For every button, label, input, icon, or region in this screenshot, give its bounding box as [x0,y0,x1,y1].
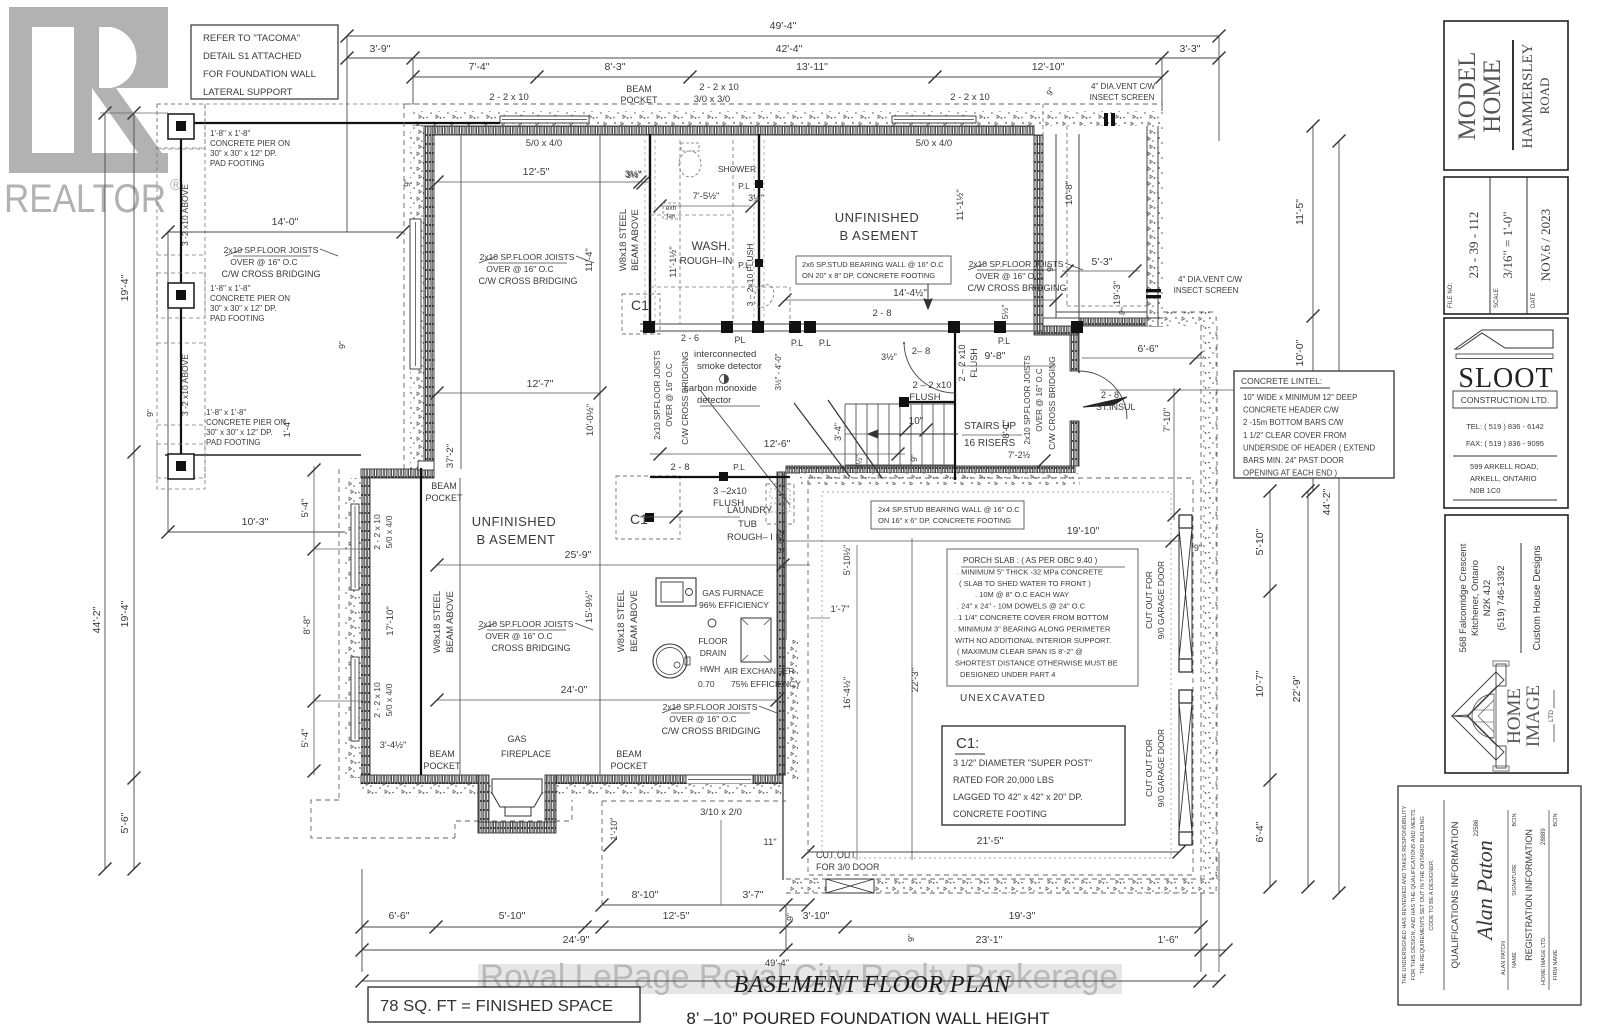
svg-text:DATE: DATE [1531,292,1537,308]
concrete pier P1 [168,114,194,139]
svg-text:BEAM: BEAM [431,481,457,491]
svg-text:HAMMERSLEY: HAMMERSLEY [1520,43,1536,148]
svg-text:PAD FOOTING: PAD FOOTING [210,314,265,323]
left wall window/vent upper [410,219,421,369]
garage inner dotted rect 2 [822,492,1171,858]
HWH tank circle [653,644,687,678]
svg-text:2x4 SP.STUD BEARING WALL @ 16": 2x4 SP.STUD BEARING WALL @ 16" O.C [878,505,1020,514]
dim chain 24'-9 / 23'-1 / 1'-6 bottom [362,949,1226,951]
svg-text:CONCRETE PIER ON: CONCRETE PIER ON [210,139,290,148]
laundry flush beam line [650,476,790,478]
left wing wall hatched [361,478,370,778]
svg-text:BEAM: BEAM [429,749,455,759]
bottom wall dashed footing steps [311,800,572,838]
section cut diagonals [700,390,790,505]
svg-text:78 SQ. FT = FINISHED SPACE: 78 SQ. FT = FINISHED SPACE [380,998,613,1015]
svg-text:. MINIMUM 3" BEARING ALONG PER: . MINIMUM 3" BEARING ALONG PERIMETER [954,624,1111,633]
left wing window lower 5/0x4/0 [351,657,359,741]
svg-text:2 – 2 x10: 2 – 2 x10 [957,344,967,381]
svg-text:BEAM: BEAM [626,84,652,94]
svg-text:12'-5": 12'-5" [663,910,690,922]
svg-text:P.L: P.L [733,462,745,472]
svg-text:5/0 x 4/0: 5/0 x 4/0 [384,515,394,548]
svg-text:SIGNATURE: SIGNATURE [1512,864,1518,896]
east step wall horizontal [1079,318,1163,326]
title block HOME IMAGE [1445,515,1568,773]
svg-text:9": 9" [145,409,155,417]
svg-text:QUALIFICATIONS INFORMATION: QUALIFICATIONS INFORMATION [1450,821,1461,968]
right wing east wall stipple [786,640,798,780]
svg-text:3'-4½": 3'-4½" [380,740,407,751]
svg-text:3/0 x 3/0: 3/0 x 3/0 [694,94,730,105]
svg-text:DESIGNED UNDER PART 4: DESIGNED UNDER PART 4 [960,670,1055,679]
svg-text:19'-4": 19'-4" [119,600,131,627]
svg-text:3 -2 x10 ABOVE: 3 -2 x10 ABOVE [180,354,190,416]
svg-text:9": 9" [906,934,916,942]
title box 78 SQ FT [368,987,640,1022]
svg-text:MODEL: MODEL [1454,52,1481,141]
svg-text:5'-6": 5'-6" [119,812,131,833]
svg-text:3 – 2x10 FLUSH: 3 – 2x10 FLUSH [745,244,755,307]
svg-text:NAME: NAME [1512,952,1518,968]
dim chain 22'-9 right [1307,491,1309,887]
svg-text:GAS: GAS [507,734,526,744]
svg-text:CONCRETE PIER ON: CONCRETE PIER ON [210,294,290,303]
svg-text:44'-2": 44'-2" [91,606,103,633]
svg-text:C1:: C1: [956,735,979,752]
svg-text:37'-2": 37'-2" [445,444,456,468]
bottom guide verticals [361,869,363,972]
stair center thick wall [954,330,956,480]
left wing dashed footing [338,469,340,800]
air exchanger box [741,618,771,662]
svg-text:7'-5½": 7'-5½" [693,191,720,202]
svg-text:PORCH SLAB : ( AS PER OBC 9.4: PORCH SLAB : ( AS PER OBC 9.40 ) [963,556,1098,565]
step wall at carport junction [361,469,434,478]
carport beam line horizontal 3-2x10 [181,122,500,124]
svg-text:2x10 SP.FLOOR JOISTS: 2x10 SP.FLOOR JOISTS [224,245,319,255]
svg-text:fan: fan [666,213,675,220]
svg-text:3/16" = 1'-0": 3/16" = 1'-0" [1500,211,1515,278]
dim chain 11'-5 / 10'-0 top right [1312,126,1314,491]
svg-text:19'-3": 19'-3" [1112,281,1123,305]
svg-text:C/W CROSS BRIDGING: C/W CROSS BRIDGING [221,269,320,279]
svg-text:568 Falconridge Crescent: 568 Falconridge Crescent [1458,543,1469,652]
svg-text:OVER @ 16" O.C: OVER @ 16" O.C [665,363,674,427]
svg-text:POCKET: POCKET [620,95,658,105]
svg-text:16 RISERS: 16 RISERS [964,438,1015,449]
svg-text:CUT OUT: CUT OUT [816,850,856,860]
bottom wing wall hatched right part [556,775,783,784]
svg-text:4" DIA.VENT C/W: 4" DIA.VENT C/W [1091,82,1155,91]
svg-text:2 - 6: 2 - 6 [681,333,699,343]
fireplace firebox shape [492,779,542,807]
svg-text:DRAIN: DRAIN [700,648,726,658]
svg-text:PAD FOOTING: PAD FOOTING [210,159,265,168]
svg-text:BCIN: BCIN [1553,813,1559,826]
porch interior wall lines [1055,134,1057,318]
svg-text:ON 20" x 8" DP. CONCRETE FOOT: ON 20" x 8" DP. CONCRETE FOOTING [802,271,935,280]
stair direction arrow [868,430,958,438]
dim chain 21'-5 bottom garage [808,851,1179,853]
svg-text:BEAM: BEAM [616,749,642,759]
east footing dashed lines [1200,326,1202,880]
svg-text:14'-4½": 14'-4½" [893,288,927,299]
dim chain 5'-10 / 10'-7 / 6'-4 right [1269,491,1271,887]
svg-text:CONCRETE HEADER C/W: CONCRETE HEADER C/W [1243,406,1339,415]
east footing step horizontal band [1163,312,1217,326]
svg-text:WASH.: WASH. [692,239,731,253]
svg-text:9/0 GARAGE DOOR: 9/0 GARAGE DOOR [1156,729,1166,807]
vertical guide from 49'-4 chain [346,36,348,232]
svg-text:(519) 746-1392: (519) 746-1392 [1496,566,1507,631]
dim line 14'-0 carport [168,231,403,233]
svg-text:CONCRETE LINTEL:: CONCRETE LINTEL: [1241,376,1322,386]
svg-text:BCIN: BCIN [1512,813,1518,826]
svg-text:OVER @ 16" O.C: OVER @ 16" O.C [669,714,736,724]
exh fan box [663,203,680,219]
dim chain 49'-4 bottom [362,980,1219,982]
svg-text:22'-9": 22'-9" [1291,675,1303,702]
title block QUALIFICATIONS [1398,786,1581,1005]
top wall stipple band [413,111,1163,126]
C1 post mark [645,513,654,522]
svg-text:smoke detector: smoke detector [697,361,762,372]
dim chain 19'-4 / 19'-4 / 5'-6 left [133,113,135,869]
svg-text:SHOWER: SHOWER [718,164,756,174]
svg-text:BASEMENT FLOOR PLAN: BASEMENT FLOOR PLAN [733,972,1012,998]
svg-text:10'-3": 10'-3" [242,516,269,528]
svg-text:PL: PL [734,335,745,345]
svg-text:19'-10": 19'-10" [1067,525,1100,537]
svg-text:2 - 2 x 10: 2 - 2 x 10 [950,92,990,103]
svg-text:IMAGE: IMAGE [1523,685,1544,747]
svg-text:44'-2": 44'-2" [1321,488,1333,515]
watermark Royal LePage band [478,964,1122,994]
svg-text:24'-9": 24'-9" [563,934,590,946]
svg-text:OVER @ 16" O.C: OVER @ 16" O.C [486,264,553,274]
svg-text:POCKET: POCKET [423,761,461,771]
garage inner dashed rect [808,478,1193,875]
svg-text:5'-10": 5'-10" [499,910,526,922]
svg-text:TEL: ( 519 ) 836 - 6142: TEL: ( 519 ) 836 - 6142 [1466,422,1544,431]
svg-text:2 - 8: 2 - 8 [670,462,689,473]
svg-text:FOR 3/0 DOOR: FOR 3/0 DOOR [816,862,880,872]
svg-text:21'-5": 21'-5" [977,835,1004,847]
svg-text:10'-0": 10'-0" [1294,339,1306,366]
svg-text:23'-1": 23'-1" [976,934,1003,946]
svg-text:3'-4": 3'-4" [833,423,843,441]
east footing band vertical [1203,326,1217,880]
svg-text:19'-3": 19'-3" [1009,910,1036,922]
svg-text:3'-10": 3'-10" [803,910,830,922]
right guide line from 49'-4 [1218,36,1220,141]
svg-text:LAUNDRY: LAUNDRY [727,505,773,516]
left wall stipple [410,126,424,474]
toilet dashed circle [679,151,701,177]
svg-text:UNDERSIDE OF HEADER ( EXTEND: UNDERSIDE OF HEADER ( EXTEND [1243,443,1375,452]
svg-text:16'-4½": 16'-4½" [842,677,853,709]
svg-text:9": 9" [785,913,795,921]
svg-text:599 ARKELL ROAD,: 599 ARKELL ROAD, [1470,462,1539,471]
watermark REALTOR R logo [9,7,168,173]
svg-text:OVER @ 16" O.C: OVER @ 16" O.C [485,631,552,641]
svg-text:ARKELL, ONTARIO: ARKELL, ONTARIO [1470,474,1537,483]
svg-text:9'-8": 9'-8" [985,350,1006,362]
svg-text:HWH: HWH [700,664,720,674]
svg-text:C/W CROSS BRIDGING: C/W CROSS BRIDGING [967,283,1066,293]
svg-text:RATED FOR 20,000 LBS: RATED FOR 20,000 LBS [953,775,1054,785]
svg-text:7'-10": 7'-10" [1162,408,1173,432]
svg-text:ON 16" x 6" DP. CONCRETE FOOTI: ON 16" x 6" DP. CONCRETE FOOTING [878,516,1011,525]
svg-text:Kitchener, Ontario: Kitchener, Ontario [1470,560,1481,636]
svg-text:49'-4": 49'-4" [770,20,797,32]
svg-text:1'-8" x 1'-8": 1'-8" x 1'-8" [206,408,246,417]
garage bottom dashed lines [786,878,1217,880]
svg-text:5½": 5½" [1000,305,1010,320]
svg-text:OVER @ 16" O.C: OVER @ 16" O.C [975,271,1042,281]
steel beam thick line left wing W8x18 [420,468,422,775]
svg-text:11": 11" [763,837,776,848]
note box 2x6 bearing wall [796,256,951,284]
svg-text:FIREPLACE: FIREPLACE [501,749,551,759]
svg-text:LTD: LTD [1548,710,1555,722]
svg-text:2 - 2 x 10: 2 - 2 x 10 [372,514,382,550]
svg-text:7'-2½: 7'-2½ [1008,450,1031,460]
svg-text:( SLAB TO SHED WATER TO FRONT: ( SLAB TO SHED WATER TO FRONT ) [959,579,1091,588]
svg-text:5'-3": 5'-3" [1092,256,1113,268]
svg-text:BARS MIN. 24" PAST DOOR: BARS MIN. 24" PAST DOOR [1243,456,1344,465]
svg-text:8'-3": 8'-3" [605,61,626,73]
svg-text:OVER @ 16" O.C: OVER @ 16" O.C [230,257,297,267]
laundry tub dashed [766,484,794,524]
svg-text:23 - 39 - 112: 23 - 39 - 112 [1466,212,1481,279]
lintel leader line [1100,389,1234,391]
svg-text:C1: C1 [631,297,649,313]
svg-text:ROAD: ROAD [1537,78,1552,115]
svg-text:11'-1½": 11'-1½" [668,246,679,277]
svg-text:1 1/2" CLEAR COVER FROM: 1 1/2" CLEAR COVER FROM [1243,431,1346,440]
svg-text:10" WIDE x MINIMUM 12" DEEP: 10" WIDE x MINIMUM 12" DEEP [1243,393,1357,402]
porch left wall hatched [1034,135,1043,335]
svg-text:5'-6½": 5'-6½" [776,528,786,553]
svg-text:13'-11": 13'-11" [796,61,828,73]
svg-text:3 1/2" DIAMETER "SUPER POST": 3 1/2" DIAMETER "SUPER POST" [953,758,1092,768]
svg-text:1'-10": 1'-10" [609,818,619,841]
svg-text:FOR FOUNDATION WALL: FOR FOUNDATION WALL [203,69,316,80]
stair door arc [904,342,955,393]
svg-text:POCKET: POCKET [610,761,648,771]
svg-text:AIR EXCHANGER: AIR EXCHANGER [724,666,794,676]
svg-text:CONCRETE PIER ON: CONCRETE PIER ON [206,418,286,427]
svg-text:5'-4": 5'-4" [300,499,311,518]
svg-text:HOME IMAGE LTD.: HOME IMAGE LTD. [1541,936,1547,985]
svg-text:9": 9" [402,179,412,187]
dim chain 6'-6 / 5'-10 / 12'-5 / 3'-10 / 19'-3 bottom [362,926,1201,928]
svg-text:PAD FOOTING: PAD FOOTING [206,438,261,447]
carport dashed footing outline [157,104,430,478]
svg-text:3½": 3½" [881,352,897,362]
svg-text:C/W CROSS BRIDGING: C/W CROSS BRIDGING [478,276,577,286]
garage interior vertical guide [856,545,858,860]
svg-text:CROSS BRIDGING: CROSS BRIDGING [491,643,570,653]
svg-text:75% EFFICIENCY: 75% EFFICIENCY [731,679,801,689]
svg-text:BEAM ABOVE: BEAM ABOVE [445,591,456,653]
svg-text:2x6 SP.STUD BEARING WALL @ 16": 2x6 SP.STUD BEARING WALL @ 16" O.C [802,260,944,269]
porch side vent bars [1146,289,1161,292]
svg-text:FLOOR: FLOOR [698,636,727,646]
carport bottom edge line [165,454,361,456]
svg-text:CODE TO BE A DESIGNER.: CODE TO BE A DESIGNER. [1429,859,1435,931]
svg-text:8'-1": 8'-1" [1001,420,1012,439]
dim 12'-7 interior [437,392,600,394]
svg-text:25'-9": 25'-9" [565,549,592,561]
svg-text:12'-5": 12'-5" [523,166,550,178]
svg-text:30" x 30" x 12" DP.: 30" x 30" x 12" DP. [206,428,273,437]
svg-text:REALTOR: REALTOR [4,177,166,221]
svg-text:NOV.6 / 2023: NOV.6 / 2023 [1538,209,1553,281]
top wall hatched band main [413,126,1034,135]
bottom wall window 3/10 [686,775,753,784]
svg-text:8'-8": 8'-8" [302,616,313,635]
title block FILE SCALE DATE [1444,177,1568,314]
svg-text:96% EFFICIENCY: 96% EFFICIENCY [699,600,769,610]
bearing wall horizontal line y327 [640,323,1043,325]
svg-text:FOR THIS DESIGN, AND HAS THE: FOR THIS DESIGN, AND HAS THE QUALIFICATI… [1411,809,1417,980]
svg-text:W8x18 STEEL: W8x18 STEEL [616,590,627,652]
svg-text:UNFINISHED: UNFINISHED [472,514,556,529]
svg-text:B ASEMENT: B ASEMENT [840,228,919,243]
note box 2x4 bearing wall [871,501,1024,529]
svg-text:30" x 30" x 12" DP.: 30" x 30" x 12" DP. [210,149,277,158]
svg-text:THE UNDERSIGNED HAS REVIEWED A: THE UNDERSIGNED HAS REVIEWED AND TAKES R… [1402,805,1408,984]
svg-text:3'-3": 3'-3" [1180,43,1201,55]
dim chain 8'-10 / 3'-7 bottom [602,904,808,906]
svg-text:7'-4": 7'-4" [469,61,490,73]
svg-text:carbon monoxide: carbon monoxide [684,383,757,394]
porch right wall stipple [1146,126,1163,326]
steel beam line left wing [459,478,461,775]
svg-text:CUT OUT FOR: CUT OUT FOR [1144,739,1154,797]
svg-text:9": 9" [909,454,919,462]
svg-text:CONSTRUCTION LTD.: CONSTRUCTION LTD. [1461,395,1550,405]
svg-text:19'-4": 19'-4" [119,274,131,301]
svg-text:P.L: P.L [791,338,803,348]
svg-text:OPENING AT EACH END ): OPENING AT EACH END ) [1243,469,1338,478]
svg-text:30" x 30" x 12" DP.: 30" x 30" x 12" DP. [210,304,277,313]
svg-text:15'-9½": 15'-9½" [584,591,595,623]
svg-text:9": 9" [1045,264,1055,272]
svg-text:N2K 4J2: N2K 4J2 [1482,580,1493,616]
svg-text:P.L: P.L [998,336,1010,346]
svg-text:FLUSH: FLUSH [909,392,940,403]
stair landing lines [845,433,955,435]
bearing wall thick wash east [758,134,760,330]
svg-text:9": 9" [337,341,347,349]
svg-text:HOME: HOME [1504,688,1525,744]
svg-text:BEAM ABOVE: BEAM ABOVE [629,590,640,652]
svg-text:WITH NO ADDITIONAL INTERIOR SU: WITH NO ADDITIONAL INTERIOR SUPPORT. [955,636,1111,645]
svg-text:P.L: P.L [819,338,831,348]
svg-text:10'-7": 10'-7" [1254,670,1266,697]
fireplace bump walls [478,775,489,822]
gas furnace box [656,578,696,606]
svg-text:Custom House Designs: Custom House Designs [1532,545,1543,650]
svg-text:22586: 22586 [1474,819,1480,836]
dim 12'-5 interior [437,181,650,183]
bearing wall under stairs hatched [786,466,1075,473]
garage bottom wall stipple [786,879,1217,893]
svg-text:2 - 2 x 10: 2 - 2 x 10 [489,92,529,103]
svg-text:2 – 2 x10: 2 – 2 x10 [912,380,951,391]
svg-text:1'-8" x 1'-8": 1'-8" x 1'-8" [210,284,250,293]
svg-text:2– 8: 2– 8 [912,346,931,357]
dim chain 44'-2 left [104,113,106,869]
svg-text:1'-6": 1'-6" [1158,934,1179,946]
svg-text:C/W CROSS BRIDGING: C/W CROSS BRIDGING [661,726,760,736]
svg-text:2 - 8: 2 - 8 [1101,390,1119,400]
svg-text:ROUGH–IN: ROUGH–IN [680,256,733,267]
dim 24'-0 interior [437,699,777,701]
title block MODEL HOME HAMMERSLEY ROAD [1444,21,1568,170]
svg-text:6'-4": 6'-4" [1254,821,1266,842]
svg-text:3½": 3½" [626,170,642,180]
svg-text:SLOOT: SLOOT [1458,363,1553,394]
bearing wall thick center upper [649,134,651,330]
svg-text:FILE NO:: FILE NO: [1448,283,1454,308]
svg-text:N0B 1C0: N0B 1C0 [1470,486,1500,495]
svg-text:FIRM NAME: FIRM NAME [1553,949,1559,980]
svg-text:3/10 x 2/0: 3/10 x 2/0 [700,807,742,818]
svg-text:W8x18 STEEL: W8x18 STEEL [618,209,629,271]
svg-text:3½": 3½" [855,455,864,469]
svg-text:17'-10": 17'-10" [385,606,396,635]
svg-text:FAX: ( 519 ) 836 - 9095: FAX: ( 519 ) 836 - 9095 [1466,439,1544,448]
sink dashed circle [750,281,778,311]
svg-text:( MAXIMUM CLEAR SPAN IS 8'-2": ( MAXIMUM CLEAR SPAN IS 8'-2" @ [957,647,1083,656]
bearing wall under stairs stipple [800,473,1080,485]
steel beam line center full height [599,134,601,775]
svg-text:POCKET: POCKET [425,493,463,503]
svg-text:5'-10½": 5'-10½" [842,545,852,575]
svg-text:49'-4": 49'-4" [765,958,789,969]
svg-text:3½" - 4'-0": 3½" - 4'-0" [774,353,783,390]
svg-text:DETAIL S1 ATTACHED: DETAIL S1 ATTACHED [203,51,302,62]
svg-text:0.70: 0.70 [698,679,715,689]
svg-text:GAS FURNACE: GAS FURNACE [702,588,764,598]
svg-text:detector: detector [697,395,731,406]
stair treads [844,404,846,465]
svg-text:14'-0": 14'-0" [272,216,299,228]
svg-text:2x10 SP.FLOOR JOISTS: 2x10 SP.FLOOR JOISTS [653,350,662,439]
top wall dashed footing line [405,103,1162,105]
svg-text:8’ –10” POURED FOUNDATION W: 8’ –10” POURED FOUNDATION WALL HEIGHT [686,1009,1049,1028]
svg-text:REFER TO "TACOMA": REFER TO "TACOMA" [203,33,300,44]
svg-text:3'-9": 3'-9" [370,43,391,55]
svg-text:2 - 2 x 10: 2 - 2 x 10 [699,82,739,93]
dashed porch front lines bottom left [602,800,786,802]
wash dashed partition lines [679,140,681,324]
svg-text:42'-4": 42'-4" [776,43,803,55]
svg-text:10'-8": 10'-8" [1064,181,1075,205]
dim 25'-9 interior [437,564,810,566]
porch inner dashed footing [1043,104,1147,318]
left wing wall stipple [345,478,361,778]
svg-text:CUT OUT FOR: CUT OUT FOR [1144,571,1154,629]
dim chain 7'-4 / 8'-3 / 13'-11 / 12'-10 [413,76,1162,78]
svg-text:C/W CROSS BRIDGING: C/W CROSS BRIDGING [680,351,690,445]
porch slab note box [947,549,1138,686]
